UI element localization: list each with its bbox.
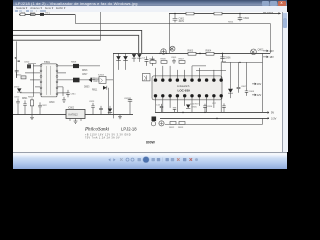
node J5 <box>182 112 184 114</box>
capacitor C821 <box>23 100 27 114</box>
capacitor C808 <box>245 88 255 96</box>
resistor R807 <box>178 59 184 64</box>
pin circles bottom row U801 <box>154 94 223 97</box>
svg-text:18V: 18V <box>269 56 274 59</box>
svg-text:R811: R811 <box>94 81 100 83</box>
speck S2 <box>18 60 20 62</box>
svg-text:400V: 400V <box>178 20 184 23</box>
svg-text:IC803: IC803 <box>98 74 105 76</box>
svg-text:R807: R807 <box>178 59 184 61</box>
capacitor C806 <box>220 53 231 59</box>
pin 1 <box>40 65 42 67</box>
svg-text:R812: R812 <box>169 127 175 129</box>
pin 11 <box>56 87 58 89</box>
ground sym 3 <box>118 115 122 119</box>
wire U801 pin1 up <box>154 68 156 78</box>
capacitor C811 <box>66 90 76 97</box>
diode D806b <box>137 54 141 62</box>
wire U801 pin14 down <box>198 98 200 106</box>
capacitor C807 <box>237 84 247 93</box>
capacitor C810 <box>24 61 36 68</box>
wire U801 pin8 up <box>221 62 226 78</box>
svg-text:+B 115V: +B 115V <box>263 12 273 14</box>
black pillarbox background <box>13 0 287 169</box>
svg-text:RV1: RV1 <box>45 12 50 14</box>
rectifier BD801 <box>151 117 156 122</box>
label out16 <box>252 83 262 86</box>
svg-text:F801: F801 <box>20 12 26 13</box>
svg-text:12V: 12V <box>257 94 262 97</box>
IC U801 LinkSwitch <box>152 76 222 100</box>
svg-text:C805: C805 <box>171 57 177 59</box>
resistor R803 <box>187 50 195 56</box>
ground sym T <box>62 97 66 102</box>
wire U801 pin10 down <box>162 98 164 113</box>
wire vertical x=113 <box>113 53 115 118</box>
capacitor C824 <box>99 106 103 115</box>
wire AC input top-left <box>19 13 75 15</box>
wire aux seg <box>196 69 226 71</box>
wire U801 pin4 up <box>176 70 178 78</box>
resistor R813 <box>178 122 185 129</box>
wire output rail 3.3V <box>160 117 269 119</box>
svg-text:C823: C823 <box>89 101 95 103</box>
capacitor C803 <box>142 56 148 65</box>
svg-text:C802: C802 <box>243 17 249 20</box>
wire vertical riser x=100 <box>100 12 102 40</box>
svg-text:LOC-939: LOC-939 <box>177 89 190 93</box>
svg-text:R824: R824 <box>228 22 234 24</box>
diode D805 <box>186 105 198 109</box>
svg-text:C3: C3 <box>142 57 146 59</box>
wire output rail 5V <box>155 111 269 113</box>
wire B+ output top-right <box>169 12 280 14</box>
diode D804 <box>228 84 233 98</box>
svg-text:3.3V: 3.3V <box>271 116 277 120</box>
capacitor C805 <box>171 57 177 64</box>
svg-text:R820: R820 <box>28 97 34 99</box>
capacitor C825 <box>124 97 132 114</box>
resistor R801 <box>186 11 194 15</box>
wire link rail <box>76 24 271 54</box>
wire drop D804 <box>229 62 231 83</box>
svg-text:R808: R808 <box>71 62 77 64</box>
wire sub rail <box>222 53 262 62</box>
wire U801 pin12 down <box>176 98 178 113</box>
svg-text:T801: T801 <box>44 60 50 64</box>
wire drop C808 <box>245 62 247 87</box>
node J3 <box>199 53 201 55</box>
pin 7 <box>56 65 58 67</box>
svg-text:R802: R802 <box>214 12 220 13</box>
wire mid rail <box>113 52 270 54</box>
resistor R802 <box>214 11 222 15</box>
wire bus line 3 <box>13 39 100 41</box>
pin 9 <box>56 76 58 78</box>
wire feedback rail <box>165 118 262 124</box>
wire drop C807 <box>237 62 239 83</box>
wire secondary 1 <box>57 65 100 67</box>
wire bottom-left rail <box>13 113 133 115</box>
transistor Q801 <box>170 46 175 51</box>
transformer T801 <box>41 60 57 97</box>
choke L801 <box>30 11 36 16</box>
regulator IC802 <box>66 108 85 121</box>
svg-text:C819: C819 <box>49 102 55 104</box>
svg-text:R811: R811 <box>92 89 98 91</box>
fuse F801 <box>20 11 26 16</box>
wire U801 pin7 up <box>198 68 200 78</box>
diode D803 <box>86 77 100 82</box>
capacitor C822 <box>38 102 47 114</box>
optocoupler IC803 <box>98 74 106 83</box>
svg-text:D810: D810 <box>14 86 20 88</box>
wire vertical from AC to bus <box>75 14 77 23</box>
ground sym 1 <box>30 115 34 120</box>
thermistor TH801 <box>151 122 155 126</box>
svg-text:LPJ2-18: LPJ2-18 <box>121 127 137 132</box>
speck S1 <box>15 57 17 59</box>
svg-text:C817: C817 <box>82 74 88 76</box>
svg-text:L801: L801 <box>30 12 36 13</box>
pin 12 <box>56 93 58 95</box>
diode D806 <box>108 106 112 115</box>
svg-text:R805: R805 <box>149 59 155 61</box>
wire U801 pin15 down <box>206 98 208 113</box>
wire vertical right rail <box>261 53 263 112</box>
diode D802 <box>123 53 128 69</box>
wire primary top <box>33 65 40 67</box>
node J9 <box>239 62 240 63</box>
varistor RV801 <box>40 11 50 16</box>
capacitor C812 <box>156 104 163 113</box>
svg-text:R804: R804 <box>205 50 211 53</box>
pin circles top row U801 <box>154 78 223 81</box>
diode bridge D800 <box>161 49 166 54</box>
svg-text:R806: R806 <box>160 59 166 61</box>
svg-text:C825: C825 <box>124 98 130 100</box>
svg-text:D811: D811 <box>90 78 96 80</box>
svg-text:KA7812: KA7812 <box>69 112 79 116</box>
svg-text:C806: C806 <box>225 57 231 60</box>
svg-text:16V: 16V <box>257 83 262 86</box>
wire U801 pin16 down <box>213 98 215 108</box>
capacitor C826 <box>15 70 19 77</box>
wire secondary 2 <box>57 72 66 74</box>
node J8 <box>166 53 167 54</box>
svg-text:C808: C808 <box>249 91 255 93</box>
diode D810 <box>14 86 21 92</box>
pin 4 <box>40 81 42 83</box>
pin 6 <box>40 93 42 95</box>
svg-text:C822: C822 <box>42 105 48 107</box>
svg-text:D803: D803 <box>84 86 90 88</box>
svg-text:C814: C814 <box>207 106 213 108</box>
svg-text:R816: R816 <box>82 70 88 72</box>
svg-text:R813: R813 <box>178 127 184 129</box>
svg-text:75V 7mA 1.2A 2A 3A 0V: 75V 7mA 1.2A 2A 3A 0V <box>85 137 120 140</box>
wire vertical x=33 <box>33 64 35 97</box>
ground sym 2 <box>74 121 78 123</box>
capacitor C823 <box>89 101 95 115</box>
wire U801 pin5 up <box>184 70 186 78</box>
resistor R812 <box>169 122 176 129</box>
transistor Q802 <box>251 48 264 54</box>
label out B <box>263 56 274 59</box>
pin 5 <box>40 87 42 89</box>
wire primary bot <box>20 92 40 94</box>
wire U801 pin6 up <box>192 66 206 78</box>
wire primary mid <box>25 72 40 74</box>
wire U801 pin13 down <box>184 98 186 106</box>
node J6 <box>216 118 218 120</box>
svg-text:800W: 800W <box>146 141 156 145</box>
resistor R808 <box>71 62 79 68</box>
svg-text:5V: 5V <box>271 111 274 115</box>
wire bus line 2 <box>13 35 139 53</box>
optocoupler IC804 <box>143 73 150 80</box>
svg-text:Linkswitch: Linkswitch <box>177 84 190 88</box>
capacitor C820 <box>14 97 20 115</box>
svg-text:C811: C811 <box>71 93 77 95</box>
svg-text:24V: 24V <box>269 50 274 53</box>
diode D801 <box>116 53 121 69</box>
resistor R820 <box>28 97 34 115</box>
capacitor C815 <box>222 103 226 112</box>
resistor R804 <box>205 50 213 56</box>
arrow B+ <box>278 12 281 14</box>
label 5V arrow <box>267 111 274 115</box>
capacitor C814 <box>203 104 213 113</box>
svg-text:+B 115V 16V 12V 5V 3.3V G: +B 115V 16V 12V 5V 3.3V GND <box>85 135 131 137</box>
wire primary low <box>30 79 40 81</box>
resistor R806 <box>160 59 166 64</box>
node J4 <box>222 53 224 55</box>
wire secondary 4 <box>57 87 63 96</box>
svg-text:C17: C17 <box>212 103 217 105</box>
diode D806a <box>132 54 136 62</box>
pin 3 <box>40 76 42 78</box>
svg-text:C16 R19: C16 R19 <box>190 104 199 106</box>
node J2 <box>239 13 241 15</box>
svg-text:PhilcoSanki: PhilcoSanki <box>84 128 110 133</box>
pin 8 <box>56 70 58 72</box>
wire vertical x=169 <box>168 13 170 53</box>
label out12 <box>252 94 262 97</box>
wire vertical x=108.5 <box>108 88 110 115</box>
wire riser left <box>16 41 18 77</box>
capacitor C804 <box>150 56 154 65</box>
svg-text:R803: R803 <box>187 50 193 53</box>
svg-text:C820: C820 <box>14 97 20 99</box>
resistor R809 <box>73 78 79 83</box>
node J1 <box>174 13 176 15</box>
svg-text:IC802: IC802 <box>68 108 75 110</box>
resistor R810 <box>16 74 26 78</box>
wire U801 pin9 down <box>154 98 156 113</box>
wire bus line 1 <box>13 30 142 53</box>
relay K801 <box>159 121 164 126</box>
svg-text:C807: C807 <box>241 86 247 88</box>
wire primary aux <box>35 86 40 88</box>
capacitor C801 <box>173 14 185 23</box>
wire U801 pin11 down <box>169 98 171 108</box>
pin 10 <box>56 81 58 83</box>
wire secondary 5 <box>57 92 68 94</box>
wire U801 pin3 up <box>169 66 171 78</box>
svg-text:D805: D805 <box>191 106 197 108</box>
wire secondary 3 <box>57 79 113 81</box>
capacitor C813 <box>173 108 176 113</box>
resistor R805 <box>149 59 155 64</box>
wire U801 pin2 up <box>162 66 164 78</box>
node J10 <box>204 112 205 113</box>
svg-text:C810: C810 <box>24 61 30 63</box>
svg-text:R801: R801 <box>186 12 192 13</box>
diode D807 <box>103 86 107 90</box>
capacitor C802 <box>238 14 250 22</box>
label 3.3V arrow <box>267 116 276 120</box>
node J7 <box>159 53 160 54</box>
label out A <box>263 50 274 53</box>
pin 2 <box>40 70 42 72</box>
